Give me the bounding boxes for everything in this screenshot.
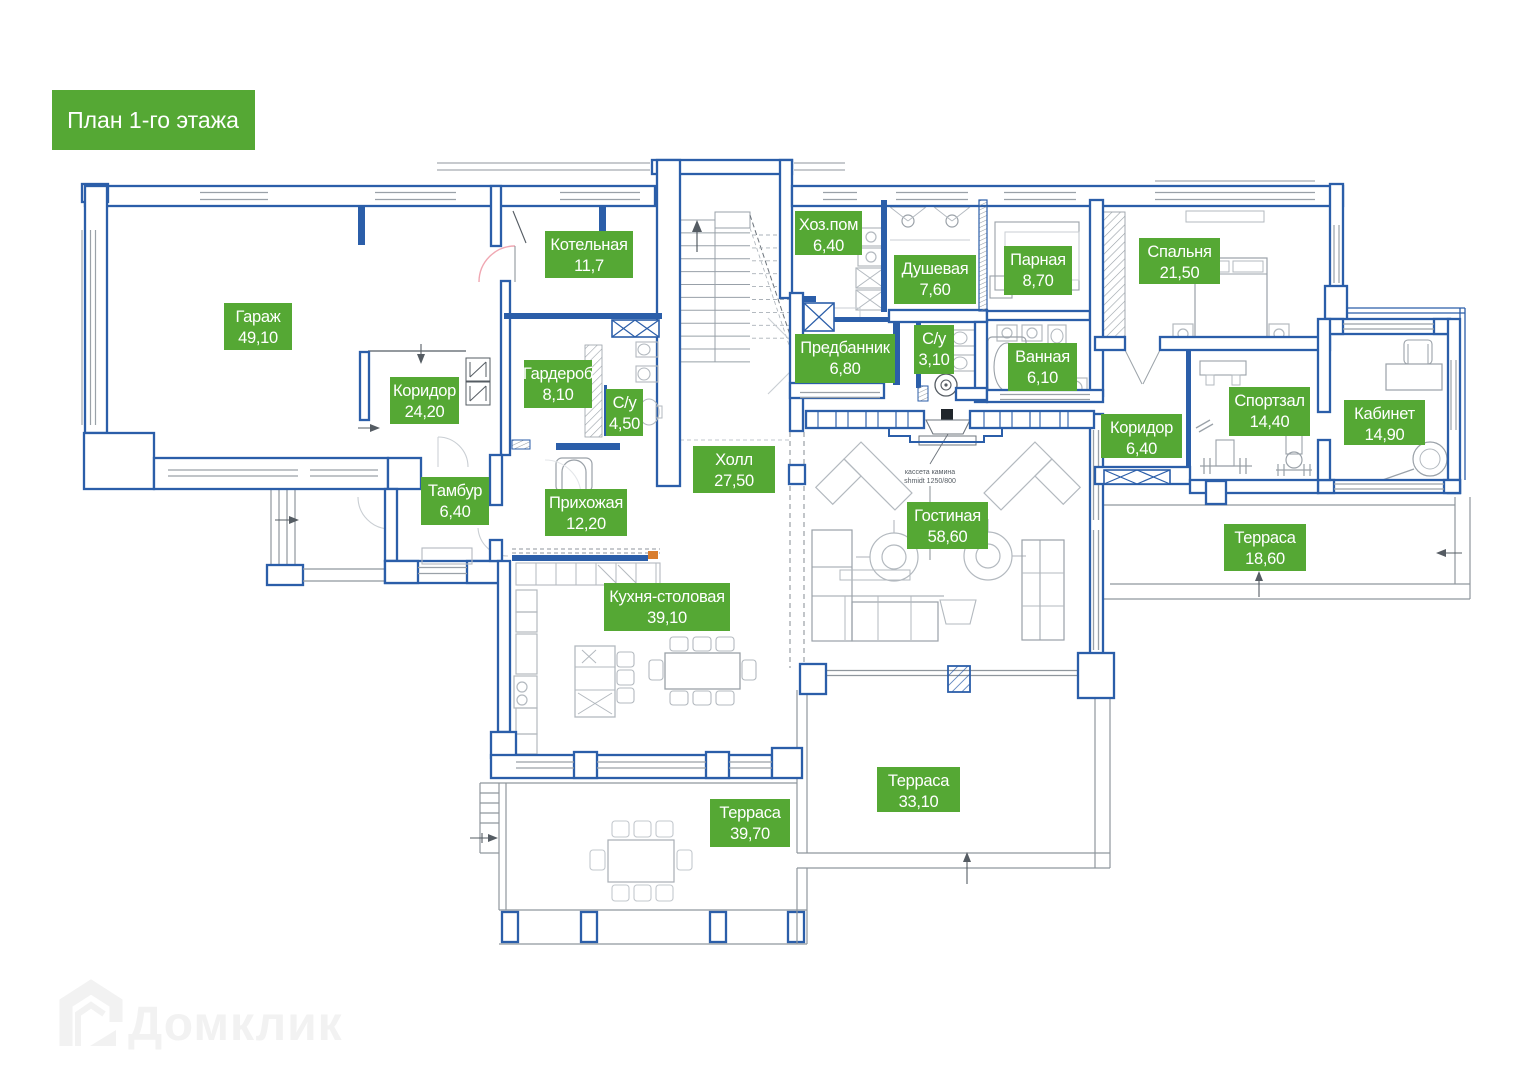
gym bench bbox=[1200, 361, 1246, 375]
wall prebannik right bbox=[893, 322, 900, 385]
pilaster kitchen bottom-left corner bbox=[491, 732, 516, 758]
prebannik bottom window slits bbox=[800, 392, 880, 394]
svg-text:Спальня: Спальня bbox=[1147, 243, 1211, 261]
svg-text:3,10: 3,10 bbox=[919, 351, 950, 369]
svg-text:Коридор: Коридор bbox=[393, 382, 456, 400]
pilaster cabinet top right bbox=[1434, 319, 1450, 334]
watermark house logo bbox=[66, 987, 116, 1046]
svg-text:кассета камина: кассета камина bbox=[905, 469, 955, 476]
svg-text:Терраса: Терраса bbox=[888, 772, 950, 790]
wall bedroom bottom right piece bbox=[1160, 337, 1330, 350]
living center table bbox=[940, 600, 976, 624]
svg-text:Домклик: Домклик bbox=[128, 998, 343, 1051]
living swivel chair right bbox=[964, 532, 1012, 580]
svg-text:12,20: 12,20 bbox=[566, 515, 606, 533]
svg-text:4,50: 4,50 bbox=[609, 415, 640, 433]
svg-text:24,20: 24,20 bbox=[405, 403, 445, 421]
door arcs hall-prebannik bbox=[768, 318, 790, 340]
wall corridor24 left band bbox=[360, 352, 369, 420]
svg-text:Гостиная: Гостиная bbox=[914, 507, 981, 525]
svg-text:6,80: 6,80 bbox=[830, 360, 861, 378]
svg-text:6,40: 6,40 bbox=[813, 237, 844, 255]
wall top exterior right section bbox=[792, 186, 1343, 206]
terrace 33.10 outline bbox=[796, 690, 798, 853]
cabinet desk bbox=[1386, 364, 1442, 390]
pilaster kitchen bottom 2 bbox=[706, 752, 729, 778]
wall su310 right / bath left bbox=[975, 322, 987, 402]
wall cabinet top bbox=[1327, 319, 1450, 334]
pilaster kitchen bottom right corner bbox=[772, 748, 802, 778]
room label Холл 27,50 bbox=[693, 446, 775, 493]
svg-text:Терраса: Терраса bbox=[1234, 529, 1296, 547]
room label Коридор 24,20 bbox=[390, 377, 459, 424]
svg-text:21,50: 21,50 bbox=[1160, 264, 1200, 282]
door arc tambour entry bbox=[358, 497, 390, 529]
svg-text:11,7: 11,7 bbox=[574, 257, 604, 275]
room label Ванная 6,10 bbox=[1008, 343, 1077, 391]
svg-text:6,10: 6,10 bbox=[1027, 369, 1058, 387]
bathroom fixtures bbox=[997, 325, 1017, 341]
svg-text:Душевая: Душевая bbox=[902, 260, 969, 278]
wall garage right upper bbox=[491, 186, 501, 246]
svg-text:6,40: 6,40 bbox=[440, 503, 471, 521]
svg-text:Хоз.пом: Хоз.пом bbox=[799, 216, 858, 234]
room label Гостиная 58,60 bbox=[907, 502, 988, 549]
wall hall top partition bbox=[556, 443, 620, 450]
svg-text:Терраса: Терраса bbox=[719, 804, 781, 822]
cabinet armchair bbox=[1413, 442, 1447, 476]
pilaster living bottom middle hatched bbox=[948, 666, 970, 692]
wall staircase right / utility left bbox=[780, 160, 792, 298]
wall kitchen bottom exterior bbox=[491, 755, 772, 778]
kitchen dining table bbox=[665, 653, 740, 689]
svg-text:8,70: 8,70 bbox=[1023, 272, 1054, 290]
su450 sink bbox=[639, 399, 659, 425]
wall parnaya right / bedroom left bbox=[1090, 200, 1103, 396]
svg-text:Котельная: Котельная bbox=[550, 236, 627, 254]
svg-text:Спортзал: Спортзал bbox=[1234, 392, 1304, 410]
pilaster kitchen bottom 1 bbox=[574, 752, 597, 778]
wall su310 left bbox=[916, 322, 921, 388]
living corner sofa right bbox=[984, 442, 1080, 538]
room label Гардероб 8,10 bbox=[523, 360, 593, 408]
hallway armchair bbox=[556, 458, 592, 492]
bedroom door arcs bbox=[1125, 350, 1142, 384]
wall su 4.50 left bbox=[604, 385, 607, 436]
svg-text:7,60: 7,60 bbox=[920, 281, 951, 299]
svg-text:49,10: 49,10 bbox=[238, 329, 278, 347]
wall su310 bottom bbox=[956, 388, 987, 400]
svg-text:39,70: 39,70 bbox=[730, 825, 770, 843]
wall shower bottom bbox=[889, 310, 987, 322]
room label Терраса 39,70 bbox=[710, 799, 790, 847]
wardrobe hatch strip bbox=[585, 345, 602, 437]
wall corner bedroom-cabinet elbow bbox=[1325, 286, 1347, 323]
svg-text:Холл: Холл bbox=[715, 451, 753, 469]
svg-text:18,60: 18,60 bbox=[1245, 550, 1285, 568]
porch columns near garage bbox=[270, 489, 272, 567]
living corner sofa left bbox=[816, 442, 912, 538]
fireplace bbox=[941, 409, 953, 421]
wall bedroom right exterior bbox=[1330, 184, 1343, 290]
room label Душевая 7,60 bbox=[894, 255, 976, 304]
garage hanging partition bbox=[358, 200, 365, 245]
wall bedroom bottom left piece bbox=[1095, 337, 1125, 350]
door arc hall south bbox=[545, 460, 581, 496]
kitchen left appliances bbox=[516, 590, 537, 612]
living swivel chair left bbox=[870, 533, 918, 581]
pilaster bottom-left corner garage bbox=[84, 433, 154, 489]
pilaster tambour bottom left bbox=[385, 561, 418, 583]
terrace table bbox=[608, 840, 674, 882]
wall utility/shower partition bbox=[881, 200, 887, 312]
pilaster living bottom right corner bbox=[1078, 653, 1114, 698]
room label Терраса 18,60 bbox=[1224, 524, 1306, 571]
canopy line above top wall bbox=[437, 162, 650, 164]
svg-text:Коридор: Коридор bbox=[1110, 419, 1173, 437]
kitchen top blue line bbox=[512, 555, 648, 561]
kitchen island bbox=[575, 646, 615, 717]
corridor window zigzag panels bbox=[466, 358, 490, 381]
pilaster living bottom left bbox=[800, 664, 826, 694]
terrace 39.70 entrance steps bbox=[480, 792, 499, 794]
wall left exterior garage bbox=[85, 186, 107, 433]
pilaster cabinet top left bbox=[1327, 319, 1343, 334]
prebannik bench bbox=[843, 381, 884, 396]
staircase up arrow bbox=[696, 224, 698, 252]
wall staircase left band bbox=[657, 160, 680, 486]
parnaya left hatched partition bbox=[979, 200, 987, 311]
terrace 33.10 arrow bbox=[966, 856, 968, 884]
wall bath bottom bbox=[987, 390, 1103, 402]
vent shaft X-box wardrobe bbox=[612, 320, 659, 337]
room label Кухня-столовая 39,10 bbox=[604, 583, 730, 631]
room label Котельная 11,7 bbox=[545, 231, 633, 278]
su450 bidet bbox=[636, 342, 658, 357]
living big sofa bbox=[812, 530, 852, 641]
cabinet offset contour bbox=[1347, 307, 1465, 309]
corridor24 door arrow bbox=[358, 427, 376, 429]
room label С/у 3,10 bbox=[914, 325, 954, 374]
svg-text:8,10: 8,10 bbox=[543, 386, 574, 404]
door arc corridor-tambour bbox=[438, 437, 468, 467]
pilaster top-left corner bbox=[82, 184, 108, 202]
wall top exterior garage section bbox=[85, 186, 655, 206]
wall parnaya bottom bbox=[987, 311, 1090, 320]
boiler hanging partition bbox=[599, 200, 606, 246]
wall staircase block top bbox=[652, 160, 792, 174]
kitchen orange marker bbox=[648, 551, 658, 559]
gym exercise machine bbox=[1286, 430, 1302, 454]
pilaster cabinet bottom left bbox=[1318, 480, 1334, 493]
cabinet golf bag bbox=[1374, 469, 1414, 483]
wall corridor bottom band bbox=[1095, 467, 1190, 484]
utility room sinks and boxes bbox=[858, 228, 884, 246]
svg-text:14,90: 14,90 bbox=[1365, 426, 1405, 444]
svg-text:33,10: 33,10 bbox=[899, 793, 939, 811]
svg-text:Ванная: Ванная bbox=[1015, 348, 1070, 366]
terrace 39.70 pillars bbox=[502, 912, 518, 942]
room label Терраса 33,10 bbox=[877, 767, 960, 812]
column hall/living bbox=[789, 465, 805, 484]
su floor drain bbox=[935, 374, 957, 396]
wall living bottom exterior bbox=[824, 670, 1078, 672]
svg-text:С/у: С/у bbox=[613, 394, 638, 412]
svg-text:Парная: Парная bbox=[1010, 251, 1066, 269]
staircase lower dashed outline bbox=[680, 439, 790, 441]
room label Хоз.пом 6,40 bbox=[795, 211, 862, 255]
wall living top left section bbox=[806, 411, 924, 428]
svg-text:Прихожая: Прихожая bbox=[549, 494, 623, 512]
wall cabinet left upper bbox=[1318, 319, 1330, 412]
svg-text:58,60: 58,60 bbox=[928, 528, 968, 546]
svg-text:39,10: 39,10 bbox=[647, 609, 687, 627]
wall living top right section bbox=[970, 411, 1094, 428]
vent X-box corridor bbox=[1104, 470, 1170, 484]
terrace 39.70 outline bbox=[480, 782, 797, 784]
wall gym bottom band bbox=[1190, 480, 1318, 493]
room label Тамбур 6,40 bbox=[421, 477, 489, 525]
wall garage right / wardrobe left bbox=[501, 281, 510, 455]
svg-text:Тамбур: Тамбур bbox=[428, 482, 482, 500]
bedroom wardrobe hatch bbox=[1099, 212, 1125, 338]
wall cabinet bottom bbox=[1318, 480, 1460, 493]
wall prebannik bottom bbox=[790, 383, 884, 398]
vent shaft X-box prebannik bbox=[804, 303, 834, 331]
gym dumbbells bbox=[1196, 420, 1210, 428]
wall utility bottom left piece bbox=[792, 296, 816, 302]
staircase dashed diagonal bbox=[750, 215, 790, 335]
svg-text:Гараж: Гараж bbox=[235, 308, 280, 326]
wall cabinet left lower bbox=[1318, 440, 1330, 480]
room label Предбанник 6,80 bbox=[795, 334, 895, 383]
wall tambour right upper bbox=[490, 455, 502, 505]
wall corridor24 top bbox=[368, 350, 466, 352]
wall tambour bottom exterior bbox=[385, 561, 500, 583]
terrace 39.70 entrance arrow bbox=[481, 833, 483, 843]
pilaster tambour bottom right bbox=[467, 561, 500, 583]
su450 toilet bbox=[636, 366, 658, 382]
svg-text:14,40: 14,40 bbox=[1250, 413, 1290, 431]
pilaster garage bottom right bbox=[388, 458, 421, 489]
room label Коридор 6,40 bbox=[1101, 414, 1182, 458]
room label Кабинет 14,90 bbox=[1344, 400, 1425, 445]
svg-text:shmidt 1250/800: shmidt 1250/800 bbox=[904, 478, 956, 485]
boiler room door arc pink bbox=[479, 246, 515, 282]
staircase top landing bbox=[715, 212, 750, 228]
svg-text:Кухня-столовая: Кухня-столовая bbox=[609, 588, 725, 606]
svg-text:27,50: 27,50 bbox=[714, 472, 754, 490]
parnaya benches bbox=[995, 222, 1079, 290]
corridor24 top entry arrow bbox=[420, 344, 422, 360]
terrace connector lines bbox=[796, 868, 798, 944]
title План 1-го этажа bbox=[52, 90, 255, 150]
staircase treads bbox=[680, 219, 750, 221]
wall garage bottom exterior bbox=[154, 458, 388, 489]
pilaster cabinet bottom right bbox=[1444, 480, 1460, 493]
svg-text:С/у: С/у bbox=[922, 330, 947, 348]
wall boiler room bottom bbox=[504, 313, 662, 319]
tambour mat bbox=[422, 548, 472, 564]
room label С/у 4,50 bbox=[606, 389, 643, 436]
wall prebannik left bbox=[790, 293, 803, 431]
door arc tambour-hallway bbox=[478, 528, 508, 556]
wall corridor left / living right bbox=[1090, 414, 1103, 672]
room label Спальня 21,50 bbox=[1139, 238, 1220, 284]
wall tambour step vertical bbox=[385, 489, 397, 561]
svg-text:Гардероб: Гардероб bbox=[523, 365, 593, 383]
room label Прихожая 12,20 bbox=[545, 489, 627, 536]
terrace 18.60 arrows bbox=[1440, 552, 1462, 554]
open boundary hall/living dashed bbox=[789, 432, 791, 668]
svg-text:6,40: 6,40 bbox=[1126, 440, 1157, 458]
room label Парная 8,70 bbox=[1004, 246, 1072, 295]
living top band fireplace protrusion bbox=[889, 428, 1002, 442]
room label Спортзал 14,40 bbox=[1229, 387, 1310, 436]
wall tambour right lower bbox=[490, 540, 502, 561]
su toilet and bidet bbox=[952, 330, 975, 346]
living top band dividers bbox=[817, 411, 819, 428]
boiler room door leaf bbox=[513, 211, 526, 243]
gym barbell rack bbox=[1200, 465, 1252, 467]
shower heads bbox=[902, 215, 914, 227]
room label Гараж 49,10 bbox=[224, 303, 292, 350]
terrace 18.60 outline bbox=[1103, 504, 1455, 506]
wall gym/corridor divider bbox=[1186, 350, 1191, 467]
living side sofa bbox=[1022, 540, 1064, 640]
bedroom bed bbox=[1195, 258, 1267, 340]
svg-text:Предбанник: Предбанник bbox=[800, 339, 890, 357]
pilaster gym bottom bbox=[1206, 481, 1226, 504]
bedroom dresser top bbox=[1186, 211, 1264, 222]
svg-text:Кабинет: Кабинет bbox=[1354, 405, 1415, 423]
wall utility bottom right piece bbox=[834, 317, 892, 322]
porch arrow bbox=[275, 519, 295, 521]
wall hall top hatched piece bbox=[512, 440, 530, 449]
wall cabinet right bbox=[1448, 319, 1460, 493]
kitchen top counter row bbox=[512, 548, 660, 550]
wall kitchen left bbox=[498, 561, 510, 732]
svg-text:План 1-го этажа: План 1-го этажа bbox=[67, 107, 239, 133]
